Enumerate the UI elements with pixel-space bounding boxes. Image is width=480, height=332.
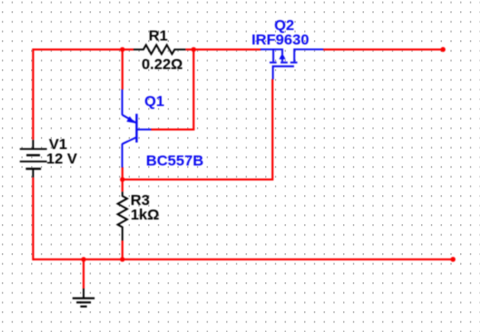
svg-text:BC557B: BC557B [146,152,204,169]
svg-text:R1: R1 [149,27,168,44]
svg-text:Q1: Q1 [144,93,164,110]
svg-text:IRF9630: IRF9630 [252,31,310,48]
svg-text:0.22Ω: 0.22Ω [142,56,183,73]
svg-text:12 V: 12 V [46,151,77,168]
svg-text:1kΩ: 1kΩ [131,207,160,224]
